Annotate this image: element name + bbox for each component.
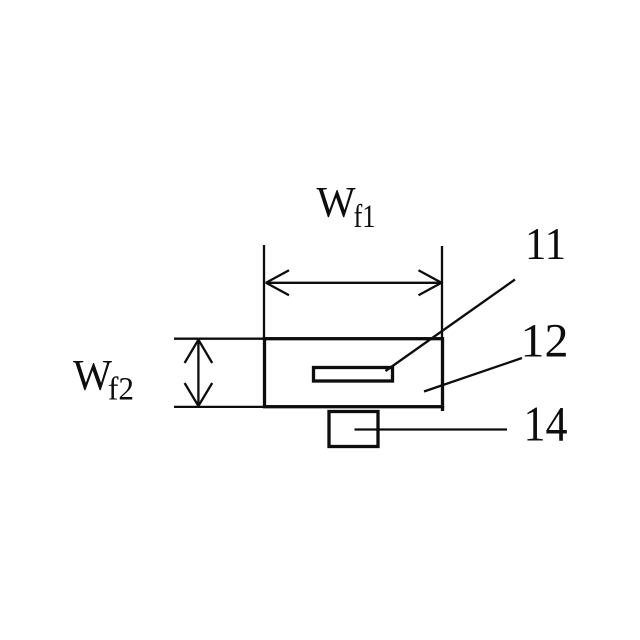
label Wf1 [317,180,376,236]
svg-text:W: W [73,353,112,400]
dimension arrow Wf2 top arrowhead [185,340,213,363]
dimension arrow Wf2 bottom arrowhead [185,383,213,406]
main rectangle right-edge overshoot stub [441,406,444,411]
main body rectangle 12 [265,339,443,407]
svg-text:f2: f2 [108,372,134,408]
dimension arrow Wf1 shaft [266,282,442,284]
inner electrode rectangle 11 [314,368,393,382]
leader line to 11 [386,280,516,372]
svg-text:W: W [317,180,356,227]
svg-text:f1: f1 [354,199,376,235]
svg-text:11: 11 [525,218,566,269]
leader line to 12 [424,358,522,392]
extension line top horizontal (Wf2) [174,338,265,340]
extension line right vertical (Wf1) [441,246,443,339]
svg-text:14: 14 [524,396,568,452]
extension line left vertical (Wf1) [263,245,265,339]
dimension arrow Wf1 right arrowhead [419,270,442,295]
leader line to 14 [355,428,508,430]
svg-text:12: 12 [521,315,569,368]
bottom terminal square 14 [329,412,378,447]
dimension arrow Wf2 shaft [197,340,199,406]
label Wf2 [73,353,134,408]
extension line bottom horizontal (Wf2) [174,406,265,408]
dimension arrow Wf1 left arrowhead [266,270,289,295]
